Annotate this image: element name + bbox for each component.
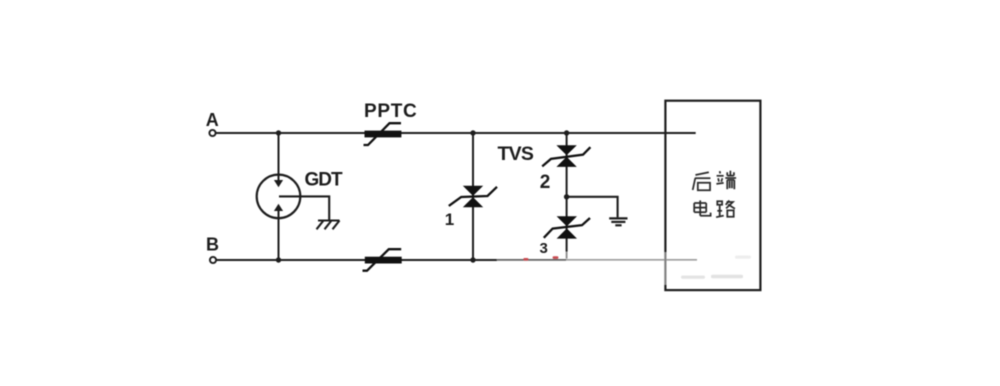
svg-text:GDT: GDT [305,169,344,190]
junction top GDT [276,130,281,135]
PPTC bottom (polymer fuse) [363,249,402,271]
wire GDT third electrode to ground [279,196,329,219]
wire TVS3 faded stub [566,252,568,259]
wire midpoint to earth ground [567,197,618,218]
svg-text:A: A [206,110,219,130]
chassis ground (GDT) [317,221,340,230]
watermark faint text remnant [681,256,751,279]
svg-text:B: B [206,234,219,254]
terminal B [210,257,216,263]
wire TVS1 branch vertical [472,133,474,260]
wire top rail A to backend box [216,132,696,134]
junction bottom TVS1 [470,257,475,262]
wire bottom rail watermark-faded segment [497,259,567,261]
text 后端 (hand-drawn glyphs) [693,171,736,191]
watermark fade on box left edge [664,252,667,285]
TVS diode 3 (bidirectional) [544,216,590,238]
terminal A [209,130,215,136]
svg-text:3: 3 [540,240,548,257]
wire GDT branch vertical [278,133,280,260]
text 电路 (hand-drawn glyphs) [694,200,735,217]
gas discharge tube GDT [257,175,301,219]
earth ground (TVS) [609,218,627,225]
backend circuit box [665,101,760,290]
svg-text:2: 2 [540,172,551,193]
junction bottom GDT [276,257,281,262]
watermark red dash 1 [523,258,528,261]
wire bottom rail faded segment into box [566,259,697,261]
TVS diode 2 (bidirectional) [542,145,590,167]
junction top TVS1 [470,130,475,135]
svg-text:TVS: TVS [498,143,534,165]
junction top TVS2 [564,130,569,135]
wire bottom rail B (black part) [216,259,497,261]
svg-text:1: 1 [445,210,454,229]
svg-text:PPTC: PPTC [364,101,417,122]
TVS diode 1 (bidirectional) [449,186,497,208]
PPTC top (polymer fuse) [364,123,402,145]
junction TVS2 TVS3 midpoint [564,194,569,199]
wire TVS2 TVS3 branch vertical [566,133,568,252]
watermark red dash 2 [553,256,559,259]
